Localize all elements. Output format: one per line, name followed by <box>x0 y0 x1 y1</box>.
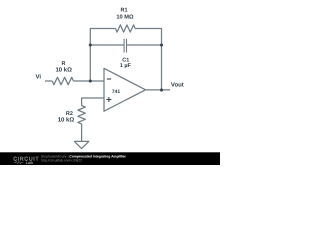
svg-text:LAB: LAB <box>26 161 34 165</box>
svg-text:http://circuitlab.com/c/24j22: http://circuitlab.com/c/24j22 <box>41 158 82 162</box>
svg-text:10 MΩ: 10 MΩ <box>116 14 134 20</box>
svg-text:R2: R2 <box>66 111 73 117</box>
svg-text:10 kΩ: 10 kΩ <box>55 66 72 73</box>
svg-text:Vi: Vi <box>36 74 42 81</box>
svg-text:R1: R1 <box>120 8 127 14</box>
svg-text:R: R <box>62 61 66 67</box>
svg-text:Vout: Vout <box>171 82 184 89</box>
svg-text:10 kΩ: 10 kΩ <box>58 117 75 124</box>
svg-text:741: 741 <box>112 89 121 95</box>
svg-text:1 µF: 1 µF <box>120 63 132 69</box>
